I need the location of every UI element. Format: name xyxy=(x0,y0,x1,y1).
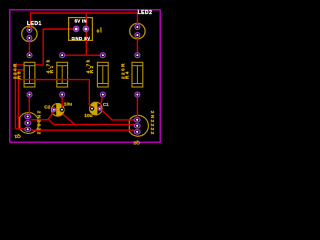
capacitor C1 body xyxy=(90,102,103,115)
svg-text:2N2222: 2N2222 xyxy=(35,111,41,136)
capacitor C2 body xyxy=(52,104,65,117)
LED1 ring xyxy=(22,26,37,41)
svg-text:R1: R1 xyxy=(49,64,54,73)
svg-text:GND 5V: GND 5V xyxy=(71,36,90,41)
power header outline xyxy=(69,18,93,41)
svg-text:R3: R3 xyxy=(16,70,21,79)
wire R2 bottom to C1 right pad xyxy=(100,95,103,108)
wire LED1 bottom to R3 top xyxy=(28,38,30,55)
wire junction left arm to Q1 base xyxy=(30,118,48,121)
svg-text:LED1: LED1 xyxy=(27,21,42,27)
wire junction arm to line B xyxy=(48,119,53,124)
wire long feed line y79 xyxy=(18,80,92,109)
svg-text:Q1: Q1 xyxy=(14,133,21,139)
resistor R4 pads xyxy=(135,53,140,97)
wire R4 bottom to Q2 pad1 xyxy=(136,95,138,120)
transistor Q2 outline xyxy=(129,115,148,136)
wire R1 bottom to C2 right pad xyxy=(61,95,63,108)
wire LED2 bottom to R4 top xyxy=(136,35,138,55)
capacitor C1 pads xyxy=(90,107,101,111)
LED2 ring xyxy=(130,23,145,38)
resistor R3 pads xyxy=(27,53,32,97)
wire left bus 2 vertical xyxy=(18,70,34,128)
resistor R4 body xyxy=(132,62,143,87)
svg-text:R2: R2 xyxy=(89,64,94,73)
resistor R1 pads xyxy=(60,53,65,97)
svg-text:C1: C1 xyxy=(103,102,109,108)
resistor R2 pads xyxy=(100,53,105,97)
wire R3 bottom to Q1 pad1 xyxy=(28,95,30,117)
power header pads xyxy=(74,26,89,31)
LED1 pads xyxy=(27,27,32,40)
resistor R1 body xyxy=(57,62,68,87)
wire top rail 5V xyxy=(31,13,138,30)
wire C2 left pad diagonal xyxy=(48,111,54,119)
resistor R3 body xyxy=(24,62,35,87)
transistor Q1 pads xyxy=(25,114,31,131)
wire line A C1 right pad to Q2 pad1 xyxy=(100,108,137,120)
wire emitter line C to Q2 pad3 xyxy=(15,129,137,132)
wire line B to Q2 pad2 xyxy=(54,124,137,125)
LED2 pads xyxy=(135,25,140,38)
resistor R2 body xyxy=(97,62,108,87)
svg-text:5V IN: 5V IN xyxy=(75,19,87,24)
svg-text:10u: 10u xyxy=(64,102,72,108)
svg-text:R4: R4 xyxy=(124,70,129,79)
transistor Q1 outline xyxy=(20,113,39,134)
wire R1 top to R2 top rail xyxy=(62,54,103,56)
svg-text:10u: 10u xyxy=(84,113,92,119)
wire header 5V spine xyxy=(85,13,87,55)
svg-text:Q2: Q2 xyxy=(133,140,140,146)
wire header left pad to left bus to Q1 emitter xyxy=(15,29,76,129)
transistor Q2 pads xyxy=(134,118,140,134)
svg-text:C2: C2 xyxy=(44,105,50,111)
svg-text:0: 0 xyxy=(97,28,100,34)
board outline xyxy=(10,10,160,142)
wire C2 right diagonal to line B xyxy=(63,114,75,124)
svg-text:LED2: LED2 xyxy=(138,10,153,16)
svg-text:2N2222: 2N2222 xyxy=(149,111,155,136)
capacitor C2 pads xyxy=(52,108,64,112)
